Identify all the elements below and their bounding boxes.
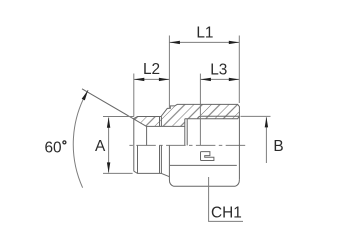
svg-text:CH1: CH1	[211, 205, 242, 222]
svg-text:A: A	[95, 138, 106, 155]
svg-text:B: B	[273, 138, 283, 155]
svg-text:L2: L2	[143, 61, 160, 78]
svg-text:L1: L1	[196, 24, 213, 41]
svg-text:L3: L3	[210, 61, 227, 78]
svg-text:60: 60	[44, 139, 61, 156]
